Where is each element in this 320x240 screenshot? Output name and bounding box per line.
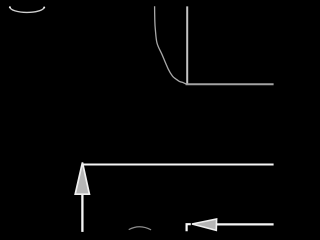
arc A1 (top-left sag curve) xyxy=(10,7,44,12)
axis horizontal xyxy=(186,83,274,85)
arrow up shaft xyxy=(81,195,83,232)
node arc-end left xyxy=(9,6,11,8)
curve ramp (decay curve top-right) xyxy=(155,6,187,84)
arrow up head xyxy=(75,162,89,194)
arrow left shaft xyxy=(217,223,274,225)
wire middle (long horizontal line) xyxy=(82,163,274,165)
node arc-end right xyxy=(43,7,45,9)
corner mark at arrow tip xyxy=(187,224,191,231)
arrow left head xyxy=(192,219,217,230)
arc A2 (small bottom-center bump) xyxy=(129,227,151,230)
axis vertical xyxy=(186,6,188,85)
